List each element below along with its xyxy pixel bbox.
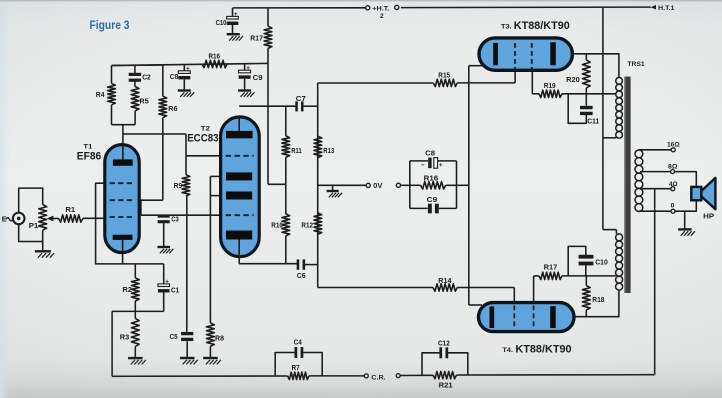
resistor R6 screen feed — [162, 65, 164, 96]
wire feedback bottom rail left — [112, 375, 288, 377]
terminal circle 0V right — [396, 183, 400, 187]
wire feedback node under R2 — [112, 310, 164, 312]
wire centre line of splitter — [317, 83, 319, 288]
T2 grid1 dashed — [226, 155, 254, 157]
resistor R20 — [585, 54, 587, 60]
resistor R5 — [131, 87, 139, 111]
ground below C3 — [157, 246, 170, 248]
wire T3 g2 to R19 — [531, 69, 533, 94]
wire secondary 0 tap — [639, 210, 671, 212]
capacitor C3 with ground — [163, 214, 165, 217]
wire T2 grid1 tap — [186, 155, 221, 157]
wire screen sub-rail — [112, 63, 269, 65]
capacitor C1 cathode bypass — [163, 264, 165, 284]
wire secondary 8 ohm tap — [640, 171, 671, 173]
wire rail to C.R. terminal — [309, 375, 364, 377]
wire T3 anode to transformer — [572, 54, 619, 78]
transformer TRS1 core — [624, 77, 630, 293]
ground below C8 — [178, 89, 191, 91]
resistor R9 — [185, 134, 187, 175]
resistor R7 — [288, 372, 309, 379]
T2 cathode1 bar — [226, 172, 252, 180]
wire R17 down to anode node — [267, 48, 269, 184]
terminal circle C.R. left — [364, 374, 368, 378]
loudspeaker HP — [691, 187, 701, 200]
wire R4-R5 bottom junction to T1 anode — [112, 124, 136, 126]
resistor R11 — [285, 106, 287, 136]
transformer primary upper winding — [616, 77, 623, 84]
T1 grid g3 dashed — [110, 182, 135, 184]
resistor R15 — [433, 79, 457, 86]
wire 0V to balance box — [401, 184, 410, 186]
resistor R2 — [134, 264, 136, 278]
input jack E — [13, 213, 25, 225]
resistor R8 with ground — [207, 323, 215, 347]
wire R1 to T1 grid — [83, 217, 107, 219]
wire balance box left side — [409, 161, 411, 209]
capacitor C6 — [297, 259, 300, 269]
resistor R17 upper — [267, 8, 269, 26]
ground below P1 — [42, 242, 44, 251]
wire HT rail right segment — [401, 6, 651, 9]
T4 anode bar — [550, 306, 556, 328]
wire T4 anode to transformer — [574, 290, 619, 317]
ground at speaker return — [684, 211, 686, 228]
capacitor C9 in balance box — [410, 207, 428, 209]
capacitor C7 — [295, 101, 298, 111]
T3 grid1 dashed — [514, 43, 516, 69]
wire T4 g2 to R17 — [533, 276, 535, 304]
transformer secondary winding — [635, 150, 643, 158]
wire balance box right side — [456, 161, 458, 209]
resistor R4 — [111, 66, 113, 84]
T2 cathode2 bar — [226, 231, 252, 240]
T1 grid g2 dashed — [110, 199, 135, 201]
resistor R14 — [433, 284, 457, 291]
tube T4 KT88/KT90 envelope — [479, 303, 575, 332]
wire R17-line to R10 top junction — [268, 183, 286, 185]
wire feedback takeoff from 4 ohm — [654, 189, 656, 375]
wire top rail left segment — [233, 7, 366, 9]
T3 anode bar — [550, 42, 556, 65]
T1 cathode bar — [113, 235, 133, 240]
T4 grid2 dashed — [533, 306, 535, 330]
T4 cathode bar — [490, 306, 495, 328]
wire anode-load top bus — [112, 64, 163, 67]
wire T1 cathode stem — [122, 240, 124, 264]
resistor R10 — [285, 184, 287, 214]
capacitor C12 loop — [422, 353, 440, 376]
potentiometer P1 — [39, 205, 47, 231]
wire C10 loop to screen line — [568, 246, 586, 276]
wire 8 ohm to speaker — [675, 172, 697, 187]
T3 grid2 dashed — [531, 43, 533, 69]
capacitor C9 upper with ground — [244, 64, 246, 70]
terminal circle HT2 left — [366, 6, 370, 10]
P1 wiper arrow — [53, 218, 59, 220]
wire HT centre-tap drop — [602, 7, 604, 229]
wire R17 to transformer UL tap — [562, 275, 616, 277]
resistor R13 — [314, 136, 322, 157]
wire R9 line down to C5 — [186, 196, 188, 332]
wire T2 cathode2 stem to output bus — [238, 240, 240, 264]
T1 grid g1 dashed — [110, 216, 135, 218]
wire R19 to transformer UL tap — [562, 93, 616, 95]
terminal circle C.R. right — [396, 374, 400, 378]
wire C7 to centre line — [303, 105, 318, 107]
wire cathode tie line T3-T4 — [468, 66, 470, 305]
wire secondary 16 ohm tap — [639, 149, 671, 151]
wire R15 to T3 grid — [457, 82, 515, 84]
transformer primary lower winding — [616, 234, 623, 241]
ground below C9 — [238, 89, 251, 91]
resistor R18 — [585, 310, 587, 317]
wire 0 tap to speaker return — [675, 200, 696, 211]
label H.T.1 with arrow — [651, 5, 656, 10]
tube T1 EF86 envelope — [105, 145, 139, 253]
wire T1 grid-leak loop — [96, 183, 164, 264]
terminal circle HT2 right — [395, 5, 399, 9]
ground at 0V tap — [332, 185, 334, 190]
wire T1 g2 tap — [139, 199, 163, 201]
tube T2 ECC83 envelope — [221, 117, 260, 257]
wire secondary 4 ohm tap — [640, 188, 671, 190]
wire input box top — [19, 188, 43, 213]
wire splitter top to R15 — [318, 82, 434, 84]
wire T1 anode to R9 line — [123, 133, 186, 135]
capacitor C5 with ground — [181, 332, 193, 335]
resistor R12 — [314, 213, 322, 234]
wire balance box to cathode line — [457, 184, 470, 186]
resistor R17 lower — [534, 275, 539, 277]
capacitor C11 — [580, 106, 593, 109]
wire C11 loop to screen line — [568, 94, 586, 124]
resistor R3 with ground — [134, 311, 136, 318]
capacitor C10 (supply filter) — [232, 8, 234, 17]
wire splitter bottom to R14 — [318, 287, 433, 289]
resistor R16 in balance box — [410, 184, 421, 186]
resistor R19 — [532, 93, 539, 95]
wire 0V tap — [318, 184, 366, 186]
capacitor C2 — [134, 65, 136, 73]
resistor R1 — [59, 215, 83, 222]
resistor R21 — [433, 371, 457, 378]
capacitor C8 upper with ground — [183, 65, 185, 71]
capacitor C8 in balance box — [410, 160, 428, 162]
tube T3 KT88/KT90 envelope — [479, 38, 572, 70]
T2 anode2 bar — [226, 192, 252, 200]
resistor R16 upper on sub-rail — [202, 60, 227, 67]
terminal circle 0V left — [366, 183, 370, 187]
T4 grid1 dashed — [513, 306, 515, 330]
wire g2 node down to coupling line — [140, 200, 142, 215]
T2 anode1 bar — [226, 131, 253, 138]
wire R14 to T4 grid — [457, 287, 514, 289]
ground below C10 — [227, 33, 240, 35]
T1 anode bar — [113, 159, 133, 165]
T3 cathode bar — [493, 43, 498, 65]
T2 grid2 dashed — [226, 214, 254, 216]
wire input box bottom — [19, 224, 43, 241]
capacitor C10 lower — [579, 255, 594, 259]
capacitor C4 loop — [275, 353, 295, 376]
wire rail right to feedback vertical — [457, 374, 655, 376]
wire C.R. to R21 box — [400, 374, 433, 376]
wire T2 anode to C7 node — [239, 105, 296, 107]
wire T2 cathode-anode bracket to R8 — [210, 175, 220, 177]
